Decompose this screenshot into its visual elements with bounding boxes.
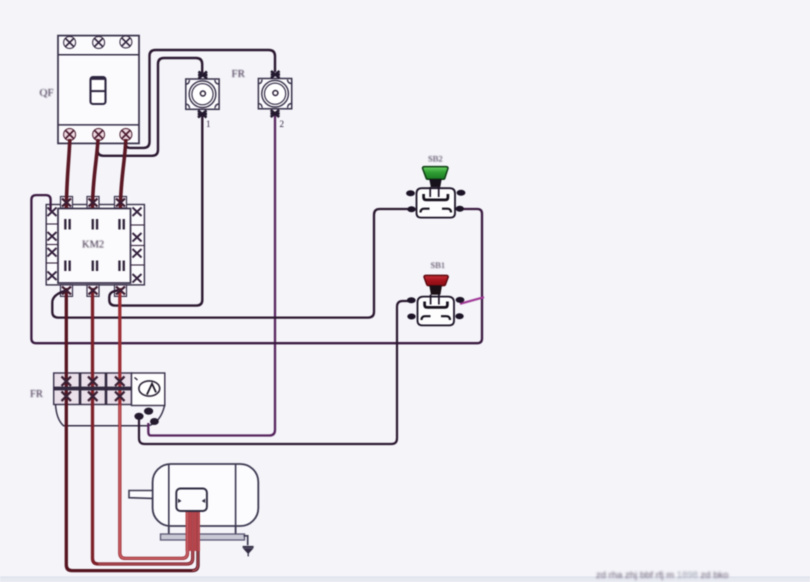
svg-text:SB1: SB1 bbox=[431, 260, 446, 270]
wire: QF middle terminal to fuse FU1 bbox=[98, 58, 203, 156]
wire: KM2 to FR to motor lead W bbox=[120, 288, 188, 558]
wire: QF to KM2 phase L1 bbox=[66, 139, 69, 208]
wire: KM2 top-left to long return via SB2 right terminal bbox=[31, 195, 482, 343]
motor ground wire bbox=[244, 536, 248, 546]
motor base plate bbox=[161, 534, 245, 540]
SB2 lower terminal screws bbox=[407, 206, 415, 212]
svg-text:QF: QF bbox=[40, 87, 54, 99]
contactor KM2 inner body bbox=[58, 209, 131, 284]
wire: QF right terminal to fuse FU2 bbox=[126, 50, 275, 148]
KM2 right side terminal screws bbox=[131, 208, 145, 283]
svg-text:2: 2 bbox=[280, 119, 285, 129]
wire: fuse FU1 to KM2 bottom-right terminal bbox=[109, 115, 202, 306]
FR ammeter dial bbox=[135, 378, 160, 397]
SB2 housing bbox=[417, 188, 456, 217]
KM2 bottom terminal boxes bbox=[61, 285, 127, 297]
fuse FU2 bottom terminal bbox=[270, 110, 279, 117]
wire: FR aux terminal to SB1 left terminal bbox=[139, 301, 410, 444]
breaker QF body bbox=[58, 36, 139, 144]
motor junction box bbox=[176, 489, 207, 512]
SB1 neck bbox=[429, 286, 442, 295]
motor end ring lines bbox=[168, 464, 170, 525]
junction box clips bbox=[178, 499, 205, 504]
QF toggle handle bbox=[91, 77, 106, 104]
KM2 top terminal screws over wires bbox=[62, 199, 125, 207]
ground symbol bbox=[243, 547, 254, 557]
FR divider lines bbox=[79, 373, 82, 405]
bottom border stripe bbox=[0, 577, 810, 582]
KM2 contact marks top row bbox=[64, 219, 125, 230]
KM2 contact marks bottom row bbox=[64, 261, 125, 272]
fuse FU1 bottom terminal bbox=[198, 111, 207, 118]
wire: KM2 to FR to motor lead U bbox=[66, 288, 198, 571]
QF top terminal screws bbox=[64, 36, 132, 49]
svg-text:FR: FR bbox=[232, 68, 246, 80]
svg-text:FR: FR bbox=[30, 389, 43, 400]
FR aux terminal dots bbox=[134, 408, 158, 425]
svg-text:KM2: KM2 bbox=[82, 240, 104, 251]
FR section screws over wires bbox=[62, 377, 125, 402]
SB1 wing screws bbox=[407, 297, 416, 303]
SB1 plunger guides bbox=[431, 295, 439, 305]
SB2 green cap bbox=[423, 167, 449, 180]
contactor KM2 outer frame bbox=[46, 205, 144, 285]
SB1 red cap bbox=[424, 275, 448, 285]
SB2 lower contact hooks bbox=[421, 209, 452, 213]
svg-text:zd rha zhj bbf rfj m 1898 z: zd rha zhj bbf rfj m 1898 zd bko bbox=[596, 570, 729, 581]
SB1 housing bbox=[418, 297, 455, 326]
wire: QF to KM2 phase L2 bbox=[93, 139, 99, 208]
SB2 neck bbox=[429, 179, 441, 187]
svg-text:SB2: SB2 bbox=[428, 154, 443, 164]
SB1 lower terminal screws bbox=[407, 314, 415, 320]
wire: SB1 right terminal jumper bbox=[460, 297, 484, 304]
motor feet bbox=[168, 526, 170, 535]
KM2 top terminal boxes bbox=[61, 197, 127, 209]
thermal relay FR terminal block bbox=[54, 373, 165, 406]
wire: QF to KM2 phase L3 bbox=[120, 139, 125, 208]
wire highlight cores on motor leads bbox=[120, 405, 188, 558]
KM2 bottom terminal screws over wires bbox=[62, 287, 125, 295]
SB2 wing screws bbox=[406, 190, 415, 196]
SB2 contact bridge bbox=[424, 194, 448, 200]
SB1 lower contact hooks bbox=[422, 316, 451, 320]
motor shaft bbox=[129, 491, 153, 499]
svg-text:1: 1 bbox=[206, 119, 211, 129]
SB2 plunger guides bbox=[430, 187, 439, 197]
wire: fuse FU2 down to FR auxiliary terminal bbox=[148, 114, 275, 436]
SB1 contact bridge bbox=[425, 302, 448, 308]
wire: KM2 to FR to motor lead V bbox=[93, 288, 193, 564]
fuse FU2 plate bbox=[258, 79, 291, 109]
FR middle dark band over wires bbox=[54, 387, 132, 391]
fuse FU1 plate bbox=[186, 79, 219, 109]
wire: KM2 coil loop to SB2 left terminal bbox=[52, 209, 409, 318]
fuse FU1 top terminal bbox=[198, 72, 208, 79]
FR body lower tub outline bbox=[56, 405, 165, 426]
motor M body bbox=[153, 464, 259, 526]
fuse FU2 top terminal bbox=[271, 71, 280, 78]
QF bottom terminal screws bbox=[64, 129, 132, 141]
KM2 left side terminal screws bbox=[46, 208, 58, 281]
motor lead band bbox=[186, 508, 200, 551]
